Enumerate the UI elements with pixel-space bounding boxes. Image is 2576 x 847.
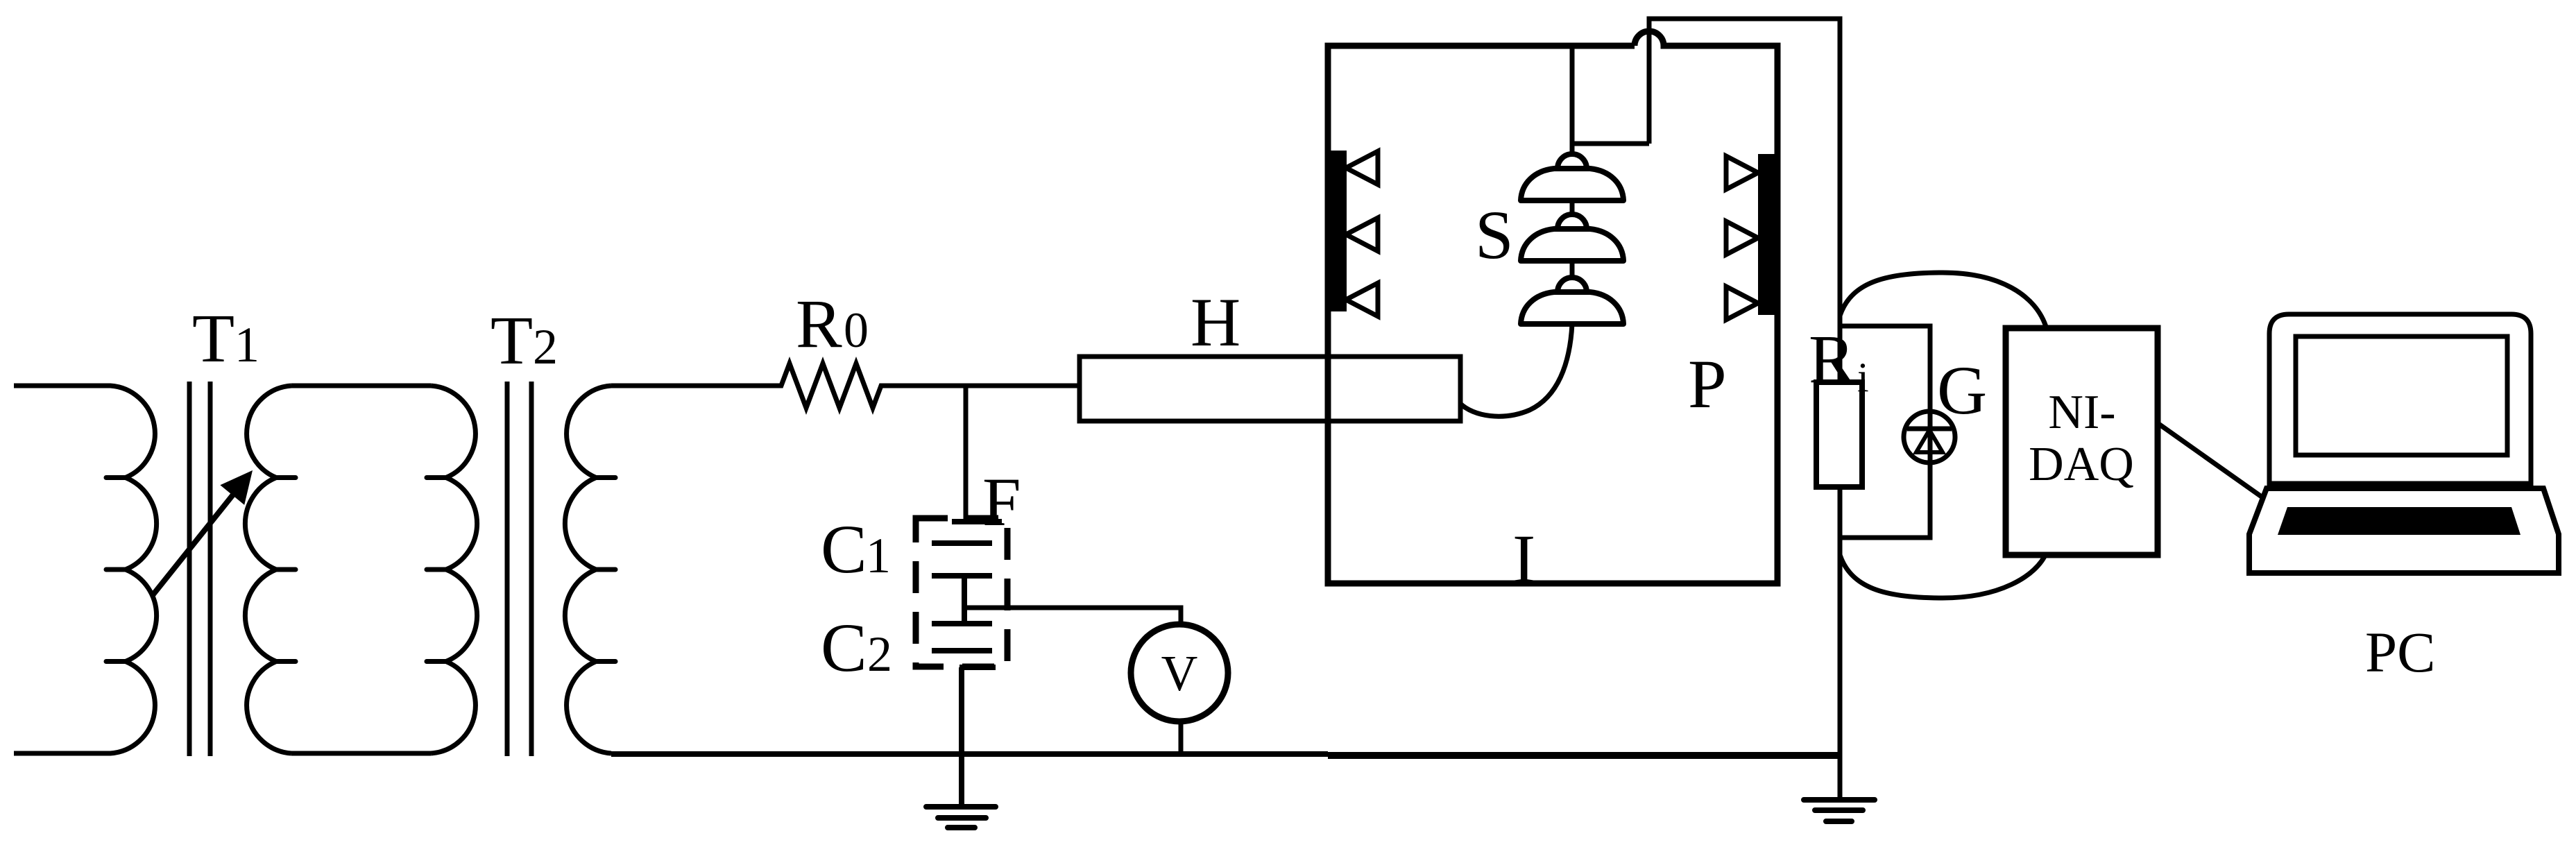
svg-text:2: 2 — [533, 319, 558, 375]
svg-text:C: C — [821, 511, 867, 588]
svg-text:R: R — [1809, 320, 1855, 397]
svg-text:H: H — [1191, 284, 1240, 361]
svg-text:F: F — [982, 463, 1021, 540]
svg-text:1: 1 — [866, 528, 891, 583]
svg-text:2: 2 — [867, 626, 892, 682]
svg-text:i: i — [1857, 354, 1869, 400]
svg-text:P: P — [1688, 345, 1727, 422]
svg-text:1: 1 — [234, 317, 259, 373]
svg-text:R: R — [796, 285, 842, 362]
svg-text:NI-: NI- — [2048, 386, 2115, 439]
svg-text:T: T — [491, 302, 533, 379]
svg-text:DAQ: DAQ — [2029, 438, 2134, 491]
svg-text:G: G — [1937, 352, 1987, 429]
svg-text:S: S — [1475, 196, 1514, 273]
svg-text:T: T — [192, 300, 234, 377]
svg-text:V: V — [1161, 645, 1198, 701]
svg-text:0: 0 — [844, 302, 869, 358]
svg-text:PC: PC — [2365, 620, 2436, 684]
svg-text:C: C — [821, 609, 867, 686]
svg-text:I: I — [1512, 520, 1535, 597]
